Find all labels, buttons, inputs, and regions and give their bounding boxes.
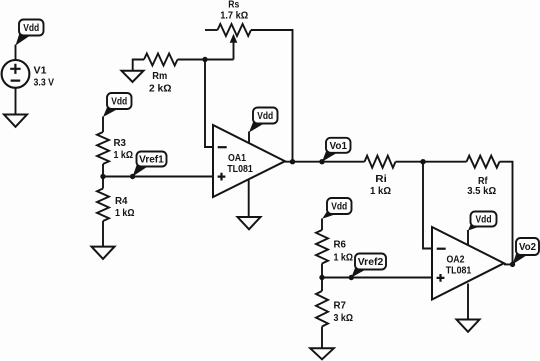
resistor Rs 1.7 kΩ (rheostat) <box>205 0 251 36</box>
wire: Rs right lead down to OA1 output <box>251 30 293 162</box>
svg-text:3.5 kΩ: 3.5 kΩ <box>467 186 496 197</box>
svg-text:2 kΩ: 2 kΩ <box>149 83 172 94</box>
svg-text:OA1: OA1 <box>228 153 246 164</box>
svg-text:OA2: OA2 <box>447 254 465 265</box>
svg-text:3 kΩ: 3 kΩ <box>334 313 354 324</box>
wire: node A down to OA1 - input <box>205 60 213 148</box>
resistor Rf 3.5 kΩ <box>467 156 500 197</box>
ground below OA2 <box>457 320 480 332</box>
svg-text:R3: R3 <box>114 138 127 149</box>
wire: Vdd to R3 <box>102 117 104 133</box>
svg-text:Vdd: Vdd <box>476 215 492 226</box>
svg-text:Vdd: Vdd <box>331 202 347 213</box>
wire: Vref1 node to OA1 + input <box>103 176 213 178</box>
net label Vdd (R6) <box>322 198 351 219</box>
node: OA2 output / Vo2 <box>510 262 515 267</box>
net label Vdd (OA2) <box>468 212 497 231</box>
node B: Ri/Rf/OA2 - junction <box>420 159 425 164</box>
net label Vref1 <box>133 152 167 177</box>
wire: OA1 Vdd stub <box>248 132 250 144</box>
svg-text:1 kΩ: 1 kΩ <box>334 253 354 264</box>
ground below V1 <box>4 115 27 127</box>
svg-text:Rm: Rm <box>152 71 167 82</box>
svg-text:R4: R4 <box>115 196 128 207</box>
resistor R3 1 kΩ <box>97 132 133 164</box>
wire: V1 top lead <box>15 45 17 61</box>
node: R3/R4 junction <box>100 174 105 179</box>
op-amp OA1 TL081 <box>213 125 285 197</box>
svg-text:V1: V1 <box>34 65 47 76</box>
wire: R6 to node <box>321 264 323 278</box>
svg-text:3.3 V: 3.3 V <box>34 78 55 89</box>
ground at Rm <box>122 71 144 82</box>
ground below R4 <box>92 247 115 259</box>
resistor R7 3 kΩ <box>316 278 353 327</box>
voltage source V1 3.3 V <box>2 60 55 89</box>
wire: Vdd to R6 <box>321 219 323 231</box>
svg-text:Rs: Rs <box>228 0 239 11</box>
svg-text:Vref2: Vref2 <box>358 257 384 268</box>
wiper arrow of Rs <box>230 34 238 60</box>
svg-text:Vo2: Vo2 <box>519 242 536 253</box>
net label Vo1 <box>322 138 351 162</box>
resistor R6 1 kΩ <box>316 230 353 264</box>
wire: Ri to node B to Rf <box>396 161 467 163</box>
wire: R7 to ground <box>321 327 323 349</box>
net label Vdd (R3) <box>103 93 132 117</box>
svg-text:Vo1: Vo1 <box>330 141 348 152</box>
net label Vo2 <box>513 238 540 264</box>
wire: Rm left lead to ground <box>133 60 144 71</box>
resistor Rm 2 kΩ <box>144 54 178 95</box>
svg-text:R6: R6 <box>334 239 347 250</box>
ground below OA1 <box>238 217 261 229</box>
node: OA1 output / Rs feedback <box>290 159 295 164</box>
node A: Rm / wiper / OA1 - net <box>202 57 207 62</box>
svg-text:1.7 kΩ: 1.7 kΩ <box>220 11 248 22</box>
wire: V1 bottom lead <box>15 88 17 115</box>
net label Vdd (V1) <box>16 20 44 46</box>
resistor R4 1 kΩ <box>97 177 135 222</box>
ground below R7 <box>310 348 334 359</box>
node: R6/R7 junction <box>319 275 324 280</box>
wire: R4 to ground <box>102 221 104 247</box>
node: Vref2 tap <box>349 275 354 280</box>
svg-text:1 kΩ: 1 kΩ <box>115 208 135 219</box>
resistor Ri 1 kΩ <box>365 156 396 197</box>
svg-text:Vdd: Vdd <box>257 111 273 122</box>
wire: OA1 ground stub <box>248 180 250 218</box>
node: Vo1 tap <box>319 159 324 164</box>
svg-text:TL081: TL081 <box>446 265 472 276</box>
wire: OA2 Vdd stub <box>467 230 469 246</box>
wire: node B down to OA2 - input <box>423 162 432 249</box>
wire: OA1 output to Ri <box>285 161 365 163</box>
net label Vdd (OA1) <box>249 108 278 133</box>
wire: node A to Rs wiper <box>205 59 234 61</box>
svg-text:R7: R7 <box>334 300 347 311</box>
svg-text:1 kΩ: 1 kΩ <box>370 186 391 197</box>
net label Vref2 <box>351 254 386 278</box>
wire: R3 to node <box>102 164 104 177</box>
svg-text:Ri: Ri <box>375 174 387 185</box>
wire: OA2 ground stub <box>467 284 469 320</box>
op-amp OA2 TL081 <box>432 227 504 300</box>
svg-text:Vref1: Vref1 <box>139 155 164 166</box>
wire: Rf right lead down to OA2 output <box>500 162 513 265</box>
wire: Vref2 node to OA2 + input <box>322 277 432 279</box>
svg-text:TL081: TL081 <box>227 164 253 175</box>
svg-text:Vdd: Vdd <box>111 97 127 108</box>
node: Vref1 tap <box>130 174 135 179</box>
wire: Rm right lead to node A <box>178 59 206 61</box>
svg-text:Vdd: Vdd <box>23 23 39 34</box>
svg-text:1 kΩ: 1 kΩ <box>114 150 134 161</box>
